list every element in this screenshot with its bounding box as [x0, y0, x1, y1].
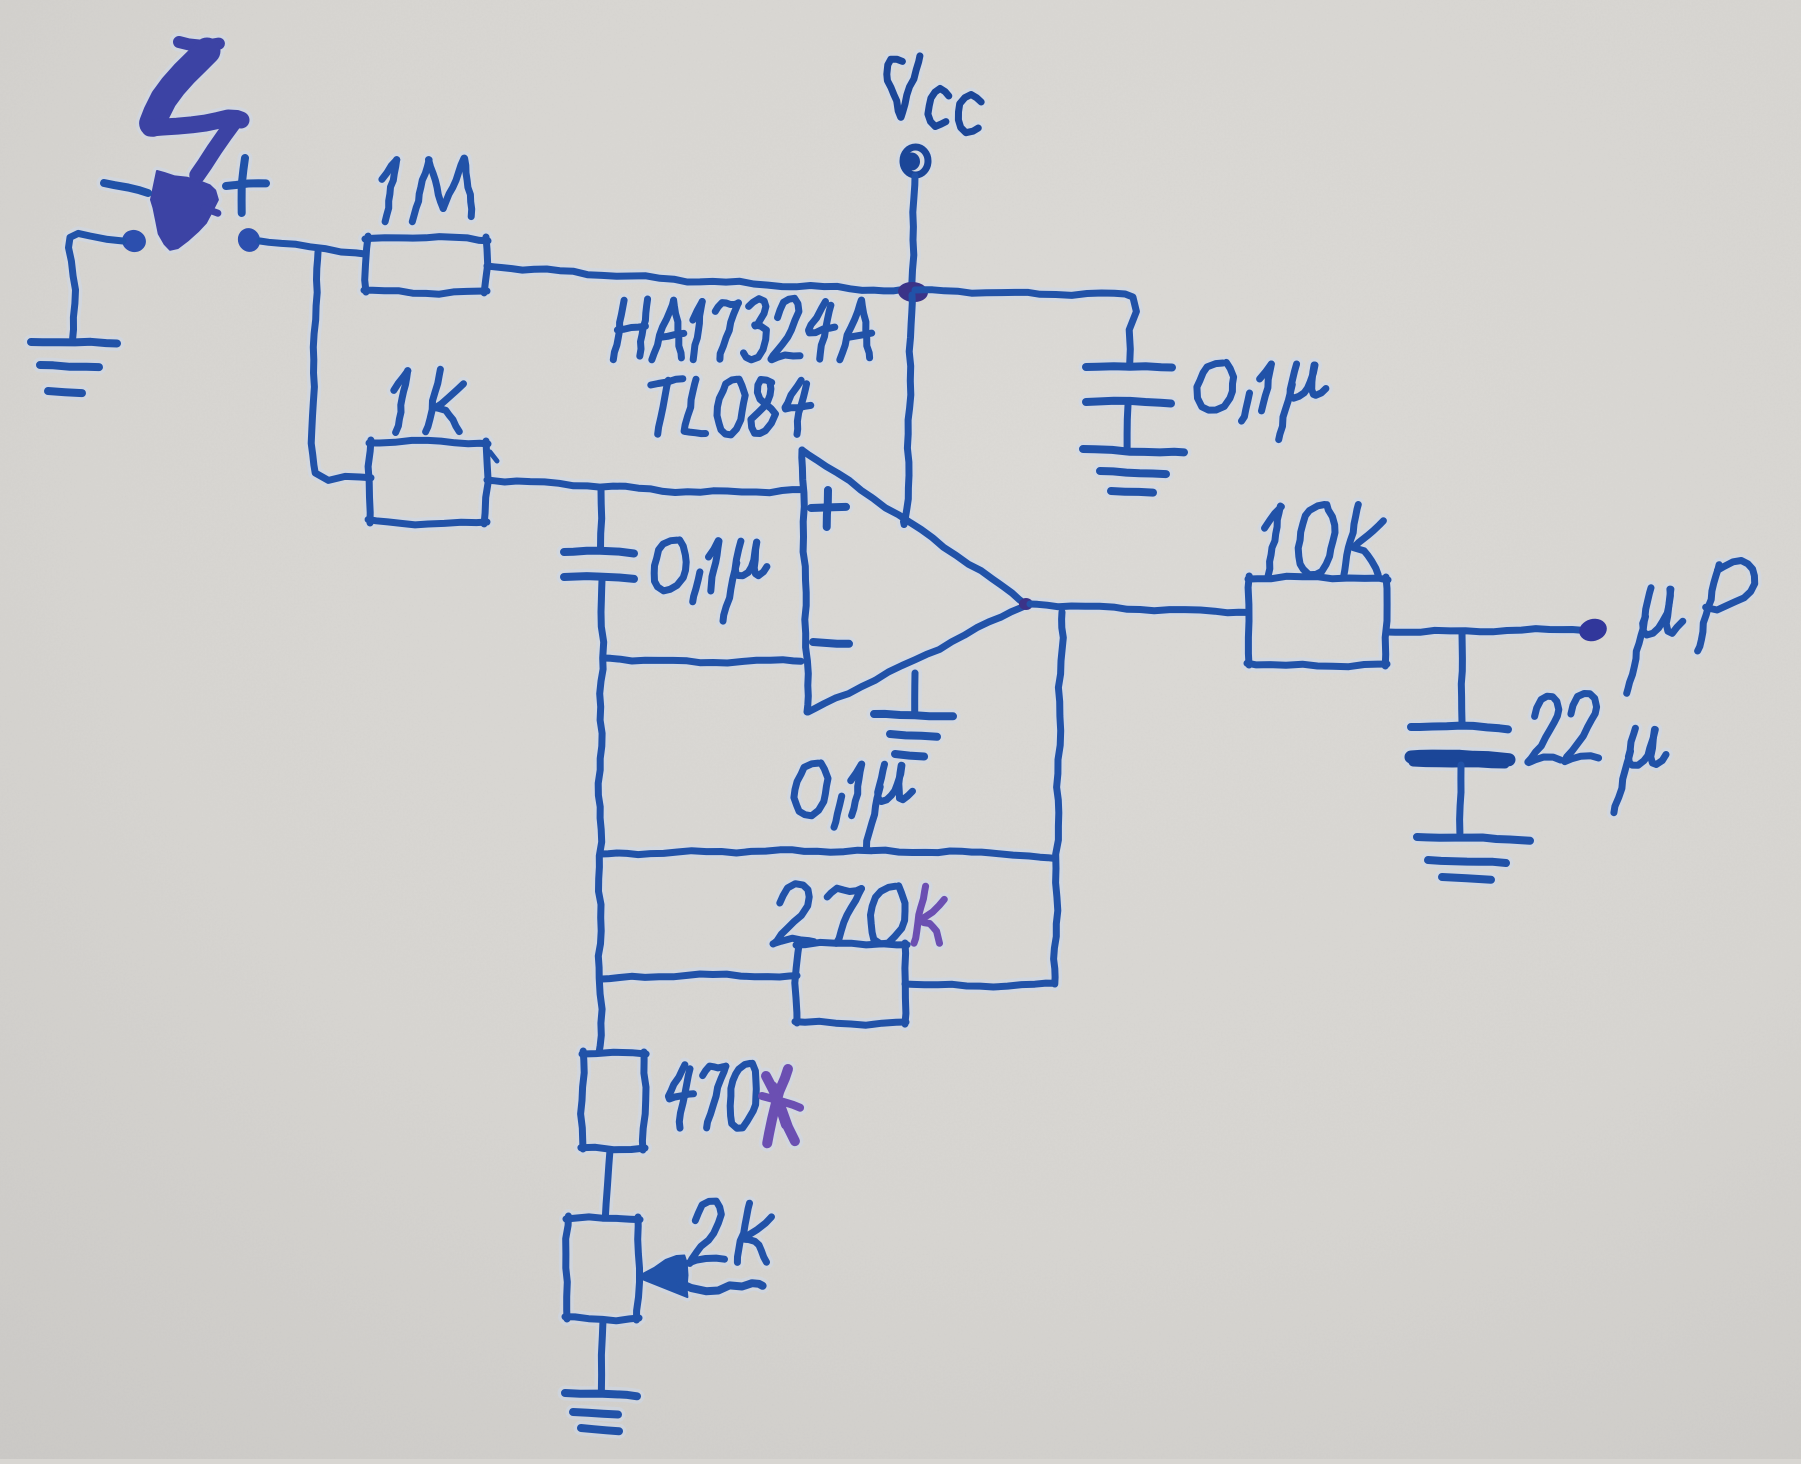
wire node A down to R1k — [311, 252, 371, 480]
label HA17324A — [613, 298, 871, 360]
label 2k — [689, 1201, 772, 1263]
ground GND4 (pot) — [565, 1393, 637, 1431]
label 1k — [394, 369, 464, 432]
wire left rail down — [598, 580, 604, 1053]
label 470 — [668, 1063, 756, 1128]
resistor R6 10k — [1247, 576, 1388, 667]
label 0.1u decoupling — [1197, 362, 1326, 439]
wire Vcc terminal down — [912, 176, 915, 292]
op-amp output node blob — [1019, 598, 1033, 610]
wire 10k to uP terminal — [1387, 629, 1580, 633]
tick mark — [490, 452, 497, 461]
op-amp + input pin label — [811, 490, 846, 527]
capacitor C2 0.1u (input filter) — [564, 489, 634, 579]
label 0.1u input filter — [654, 540, 767, 621]
label Vcc — [887, 56, 981, 133]
wire 270k left — [602, 974, 797, 979]
wire pot to ground — [601, 1320, 603, 1390]
wire 470 to pot — [605, 1150, 610, 1218]
wire Vcc junction to decoupling cap — [915, 290, 1136, 364]
terminal uP node — [1577, 616, 1610, 644]
op-amp - input pin label — [813, 642, 849, 644]
label 0.1u feedback — [794, 763, 913, 848]
terminal Vcc — [903, 147, 928, 175]
resistor R4 470 — [581, 1051, 647, 1150]
ground GND5 (22u) — [1417, 837, 1530, 880]
resistor R1 1M — [364, 236, 488, 294]
wire piezo positive to node A — [260, 241, 366, 254]
piezo negative terminal node — [120, 227, 149, 254]
label uP — [1627, 561, 1755, 694]
wire 1k to op-amp + input — [487, 480, 800, 493]
minus polarity label — [104, 183, 148, 193]
feedback capacitor wire 0.1u — [601, 850, 1054, 859]
wire to op-amp - input — [603, 658, 801, 663]
op-amp U1 — [802, 450, 1027, 712]
wire Vcc junction to op-amp V+ — [904, 295, 913, 525]
ground GND2 (decoupling) — [1083, 449, 1184, 493]
potentiometer wiper arrow — [637, 1256, 763, 1298]
wire 1M to Vcc junction — [487, 266, 908, 291]
wire op-amp output — [1030, 604, 1247, 613]
label 270k — [773, 884, 944, 944]
wire piezo negative to ground — [69, 233, 124, 338]
label TL084 — [651, 379, 811, 435]
potentiometer R5 2k body — [565, 1216, 640, 1321]
capacitor C1 0.1u (Vcc decoupling) — [1086, 366, 1172, 448]
piezo sensor symbol (lightning bolt) — [150, 42, 241, 250]
ground GND3 (op-amp) — [874, 673, 953, 757]
ground GND1 (piezo) — [31, 342, 117, 393]
feedback vertical wire — [1054, 612, 1064, 984]
label 1M — [382, 158, 472, 222]
label 22u — [1528, 694, 1666, 813]
plus polarity label — [226, 158, 266, 213]
label 10k — [1265, 505, 1384, 576]
resistor R2 1k — [368, 440, 488, 525]
junction Vcc node — [897, 281, 929, 304]
capacitor C4 22u — [1411, 633, 1509, 833]
crossed-out mark — [762, 1069, 800, 1143]
wire 270k right — [905, 983, 1054, 987]
resistor R3 270k — [795, 942, 907, 1025]
piezo positive terminal node — [235, 225, 264, 255]
